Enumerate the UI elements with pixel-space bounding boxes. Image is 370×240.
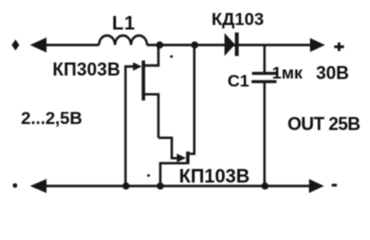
arrow output plus	[310, 38, 325, 52]
svg-text:С1: С1	[228, 72, 250, 91]
terminal minus left	[13, 183, 18, 188]
wire Q2 gate step	[158, 138, 177, 158]
wire top rail right segment	[147, 44, 312, 46]
wire top rail left segment	[42, 44, 99, 46]
wire Q1 drain to node A	[145, 45, 159, 66]
transistor Q1 channel (KP303V)	[142, 61, 145, 101]
svg-text:L1: L1	[112, 13, 135, 34]
wire Q2 source to bottom rail	[160, 163, 187, 186]
transistor Q1 gate arrow	[133, 62, 142, 71]
capacitor C1 bottom plate	[252, 80, 277, 83]
inductor L1	[99, 36, 147, 46]
transistor Q2 channel (KP103V)	[186, 152, 189, 165]
node A junction dot	[156, 41, 163, 48]
svg-text:1мк: 1мк	[272, 63, 303, 82]
wire bottom rail	[38, 185, 311, 187]
svg-text:30В: 30В	[316, 63, 349, 83]
node D junction dot (Q2 source to bottom rail)	[157, 182, 164, 189]
wire Q1 gate to bottom rail	[126, 67, 134, 187]
stray mark near node A	[170, 55, 173, 58]
svg-text:КП103В: КП103В	[179, 166, 250, 187]
terminal plus right	[334, 43, 344, 52]
svg-text:КП303В: КП303В	[53, 60, 121, 80]
node E junction dot (C1 to bottom rail)	[261, 182, 268, 189]
wire Q2 drain to node B	[189, 45, 194, 154]
capacitor C1 top lead	[263, 45, 265, 72]
arrow output minus	[309, 179, 324, 193]
diode VD1 triangle	[225, 33, 236, 56]
stray mark above bottom rail	[147, 174, 150, 177]
diode VD1 cathode bar	[235, 33, 239, 57]
node C junction dot (gate wire to bottom rail)	[122, 182, 129, 189]
arrow input minus	[30, 179, 47, 193]
svg-text:2...2,5В: 2...2,5В	[21, 108, 82, 128]
terminal plus left	[12, 40, 20, 51]
wire Q1 source down	[145, 94, 159, 138]
arrow input plus	[30, 38, 47, 53]
capacitor C1 top plate	[252, 72, 277, 75]
node B junction dot	[191, 41, 198, 48]
svg-text:КД103: КД103	[212, 9, 265, 29]
terminal minus right	[332, 184, 338, 187]
capacitor C1 bottom lead	[263, 83, 265, 186]
transistor Q2 gate arrow	[177, 154, 186, 163]
svg-text:OUT 25В: OUT 25В	[288, 114, 361, 134]
